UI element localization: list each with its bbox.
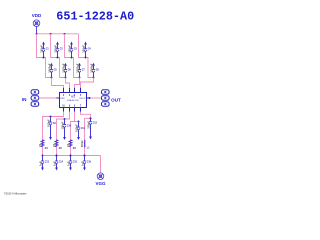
junction: [64, 33, 66, 35]
svg-text:C1: C1: [46, 49, 50, 51]
svg-text:C7: C7: [82, 69, 86, 71]
wire: [66, 78, 70, 88]
capacitor C9: [46, 116, 56, 140]
svg-text:C6: C6: [68, 69, 72, 71]
svg-text:100pF: 100pF: [60, 121, 64, 129]
svg-text:GVA-84-TB+: GVA-84-TB+: [67, 99, 80, 102]
pad J4: [102, 90, 110, 94]
power flag VDD: [32, 13, 42, 27]
svg-text:R2: R2: [59, 148, 63, 150]
capacitor C16: [80, 155, 91, 171]
resistor R1: [38, 140, 48, 150]
wire: [52, 78, 64, 88]
capacitor C13: [38, 155, 49, 171]
svg-text:C15: C15: [73, 162, 78, 164]
svg-text:U1: U1: [71, 95, 75, 99]
wire: [81, 112, 91, 119]
svg-text:C2: C2: [60, 49, 64, 51]
pad J1: [31, 90, 39, 94]
svg-text:IN: IN: [22, 97, 27, 102]
capacitor C5: [47, 63, 57, 79]
svg-text:100pF: 100pF: [81, 45, 85, 53]
capacitor C8: [89, 63, 99, 79]
junction: [90, 117, 92, 119]
junction: [89, 97, 91, 99]
svg-text:10: 10: [38, 143, 42, 146]
capacitor C11: [74, 121, 85, 140]
svg-text:C3: C3: [74, 49, 78, 51]
pad J5: [102, 96, 110, 100]
svg-text:C14: C14: [59, 161, 64, 164]
wire: [75, 78, 80, 88]
junction: [50, 33, 52, 35]
wire: [65, 34, 80, 78]
svg-text:100pF: 100pF: [39, 45, 43, 53]
svg-text:C10: C10: [67, 125, 72, 127]
wire: [43, 112, 64, 156]
svg-text:C11: C11: [81, 128, 86, 130]
svg-text:OUT: OUT: [111, 97, 121, 102]
svg-text:C16: C16: [87, 162, 92, 164]
svg-text:1000pF: 1000pF: [89, 63, 93, 73]
wire OUT: [90, 97, 102, 99]
svg-text:C13: C13: [45, 162, 50, 164]
svg-text:5: 5: [80, 95, 82, 97]
svg-text:RFOUT: RFOUT: [79, 98, 86, 100]
power flag VGG: [95, 173, 106, 186]
pad J3: [31, 102, 39, 106]
wire: [81, 78, 94, 88]
inductor L1: [80, 140, 90, 149]
svg-text:1000pF: 1000pF: [47, 63, 51, 73]
svg-text:651-1228-A0: 651-1228-A0: [56, 9, 134, 23]
svg-text:100pF: 100pF: [67, 45, 71, 53]
svg-text:1uF: 1uF: [52, 161, 56, 166]
svg-text:R1: R1: [45, 148, 49, 150]
svg-text:C4: C4: [88, 48, 92, 51]
capacitor C12: [86, 117, 97, 139]
svg-text:VDD: VDD: [32, 13, 42, 18]
junction: [36, 33, 38, 35]
amplifier U1: [57, 88, 90, 112]
wire VGG bus: [43, 155, 101, 157]
capacitor C3: [67, 42, 77, 59]
svg-text:©2016 X-Microwave: ©2016 X-Microwave: [4, 193, 27, 196]
svg-text:C5: C5: [54, 69, 58, 71]
capacitor C1: [39, 42, 49, 59]
resistor R3: [66, 140, 76, 150]
wire: [57, 112, 70, 156]
capacitor C15: [66, 155, 77, 171]
capacitor C6: [61, 63, 71, 79]
svg-text:10: 10: [66, 143, 70, 146]
capacitor C10: [60, 118, 71, 140]
capacitor C4: [81, 42, 91, 59]
svg-text:10: 10: [52, 143, 56, 146]
svg-text:VGG: VGG: [95, 181, 106, 186]
junction: [70, 155, 72, 157]
svg-text:C12: C12: [93, 122, 98, 124]
svg-text:RFIN: RFIN: [60, 98, 65, 100]
capacitor C14: [52, 155, 63, 171]
svg-text:1uF: 1uF: [38, 161, 42, 166]
svg-text:R3: R3: [73, 148, 77, 150]
pad J2: [31, 96, 39, 100]
wire: [84, 118, 86, 155]
svg-text:100pF: 100pF: [46, 119, 50, 127]
wire VDD bus: [37, 33, 79, 35]
junction: [84, 155, 86, 157]
wire: [51, 34, 66, 78]
svg-text:1uF: 1uF: [80, 161, 84, 166]
wire: [71, 112, 75, 156]
wire IN: [39, 97, 57, 99]
capacitor C7: [75, 63, 85, 79]
resistor R2: [52, 140, 62, 150]
svg-text:100pF: 100pF: [86, 121, 90, 129]
svg-text:C8: C8: [96, 69, 100, 71]
svg-text:L1: L1: [87, 147, 90, 149]
capacitor C2: [53, 42, 63, 59]
svg-text:C9: C9: [53, 123, 57, 125]
wire: [71, 121, 79, 123]
wire VDD stem: [36, 26, 38, 34]
svg-text:1uF: 1uF: [66, 161, 70, 166]
junction: [56, 155, 58, 157]
svg-text:100pF: 100pF: [53, 45, 57, 53]
wire VGG stem: [100, 156, 102, 174]
pad J6: [102, 102, 110, 106]
svg-text:1000pF: 1000pF: [75, 63, 79, 73]
svg-text:68nH: 68nH: [80, 140, 84, 147]
svg-text:100pF: 100pF: [74, 124, 78, 132]
svg-text:1000pF: 1000pF: [61, 63, 65, 73]
svg-text:2: 2: [63, 95, 65, 97]
wire: [37, 34, 52, 78]
wire: [79, 34, 94, 78]
wire: [85, 117, 91, 119]
